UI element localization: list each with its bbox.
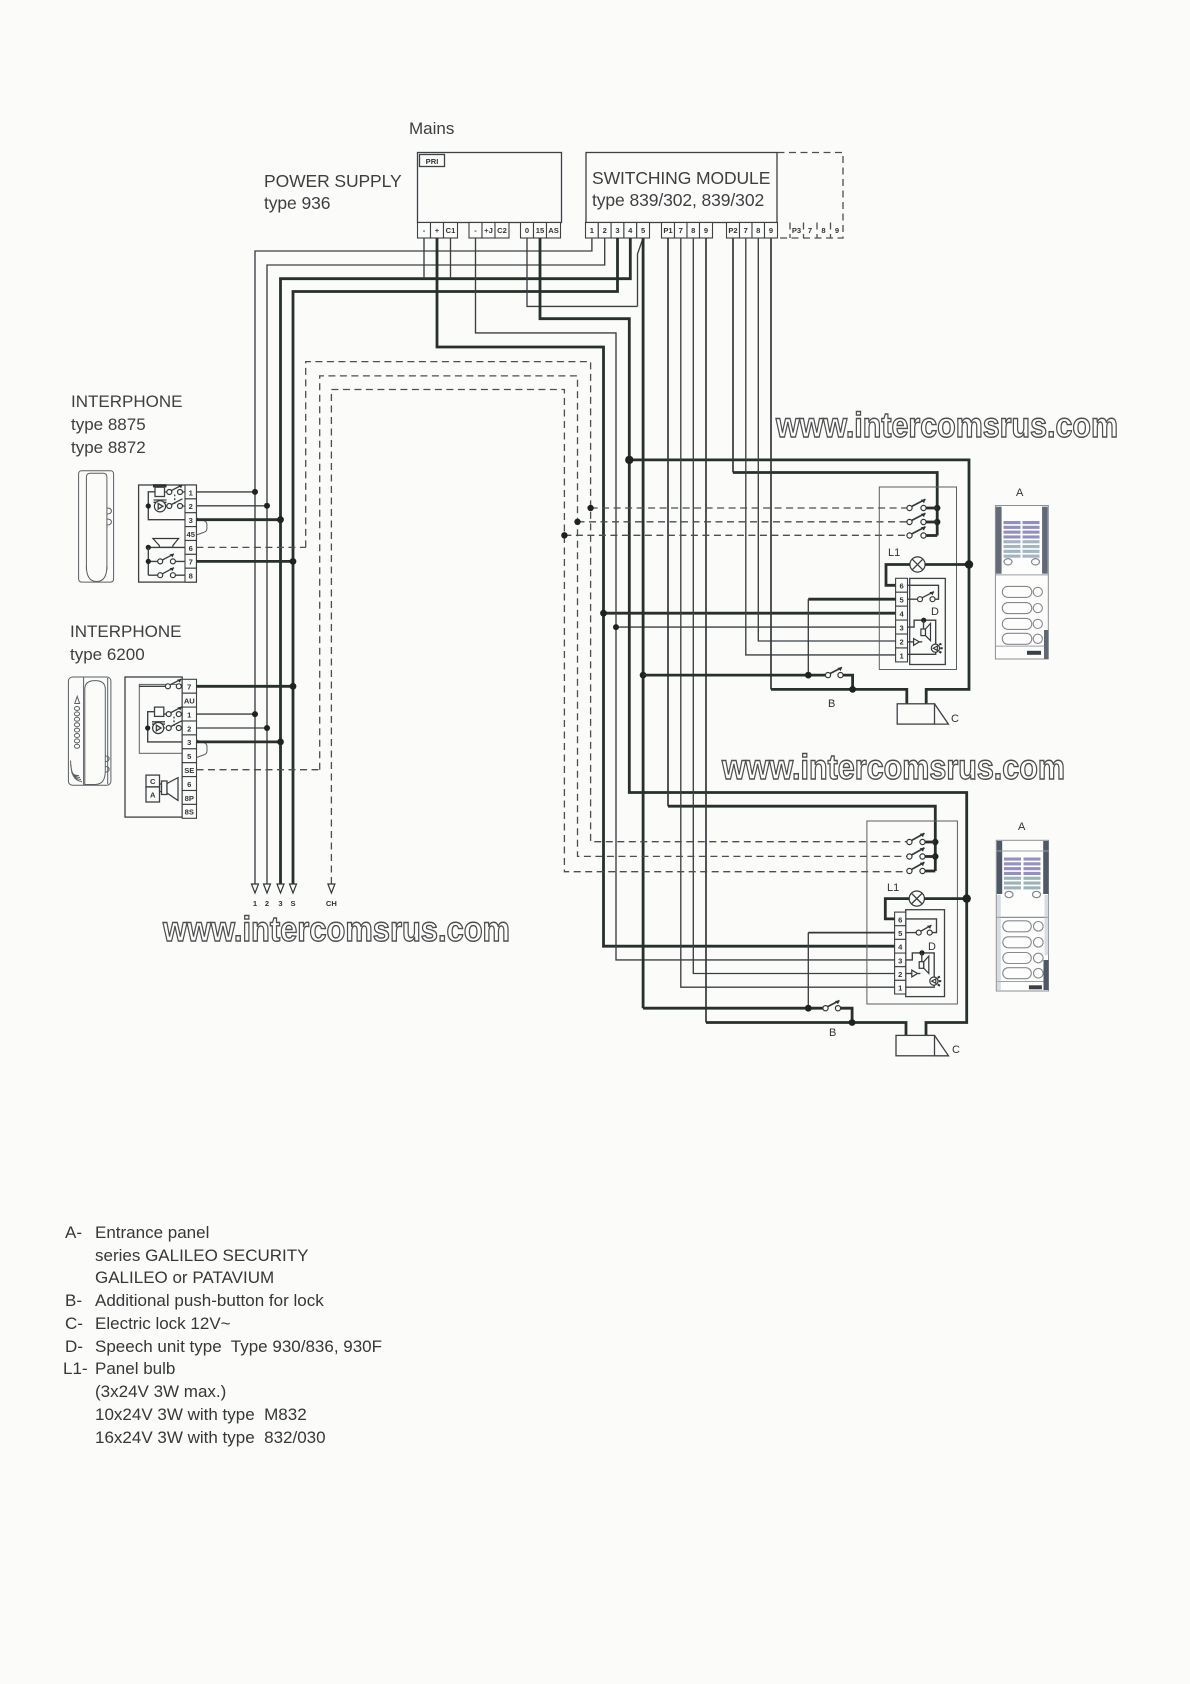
wire PS C1 stub to net 3 [450,238,452,279]
svg-text:7: 7 [189,558,193,567]
wire SM P1 to panel2 switches [667,238,669,806]
PS terminal C2 [495,223,509,239]
panel2 speech unit D box [906,910,945,997]
PS terminal +J [482,223,495,239]
svg-text:Entrance panel: Entrance panel [95,1223,209,1242]
PS terminal 0 [521,223,534,239]
8875 switch 4 [148,568,185,578]
interphone 6200 block box [125,677,182,817]
dashed net CH row3 [331,390,907,885]
wire PS -(2) down to panels T3 [476,238,895,960]
svg-text:2: 2 [265,899,269,908]
svg-text:15: 15 [536,226,545,235]
panel1 relay switch row2 [907,513,937,524]
SM terminal 1 [586,223,599,239]
panel1 relay switch row3 [907,527,937,538]
wire 8875 T3 to riser [196,518,280,521]
interphone 6200 title [70,622,181,664]
wire 6200 T1 to riser [197,713,256,715]
8875 mechanical link dotted [174,495,176,505]
wire 8875 T7 to riser [196,560,293,563]
panel2 button B [643,1001,855,1040]
svg-text:(3x24V 3W max.): (3x24V 3W max.) [95,1382,226,1401]
svg-text:7: 7 [808,226,812,235]
wire PS 0 to SM5 link [527,238,638,306]
riser arrow 3 [277,884,284,893]
8875 terminal 3 [185,513,196,527]
wire 6200 SE dashed [197,769,320,771]
6200 terminal 3 [182,735,196,749]
panel1 terminal 3 [896,620,908,634]
6200 C box [146,775,160,787]
svg-text:7: 7 [744,226,748,235]
6200 terminal 6 [182,777,196,791]
PS terminal C1 [444,223,458,239]
PS terminal 15 [534,223,547,239]
8875 buzzer [153,484,167,496]
panel2 relay switch row2 [907,848,935,859]
wire branch + to panel1 T4 [604,612,896,615]
wire PS - stub to net 3 [423,238,425,279]
panel1 terminal 6 [896,578,908,592]
panel1 switch T5-T6 [908,585,939,601]
wire SM 9a to panel2 lock [705,238,707,1023]
svg-text:D: D [931,606,939,618]
svg-text:3: 3 [278,899,282,908]
6200 terminal 8S [182,804,196,818]
svg-text:2: 2 [898,970,902,979]
8875 hook switch 2 [167,499,183,509]
8875 internal stubs [165,492,185,506]
svg-text:L1: L1 [887,882,899,894]
wire 8875 T2 to riser [196,505,267,507]
panel2 front plate drawing [996,840,1048,991]
svg-text:AU: AU [184,697,195,706]
junction P1 row1 [932,839,938,845]
svg-text:9: 9 [704,226,708,235]
svg-text:C1: C1 [446,226,456,235]
svg-text:www.intercomsrus.com: www.intercomsrus.com [721,748,1065,787]
6200 A box [146,787,160,802]
8875 speaker [153,539,179,548]
svg-text:2: 2 [603,226,607,235]
panel2 lamp L1 [885,891,971,919]
6200 mechanical link dotted [173,717,175,727]
wire PS 15 down to panel2 lamp loop [540,238,967,1035]
panel2 terminal 2 [895,967,906,981]
wire SM 8a to panel2 T2 [693,238,894,974]
svg-text:P3: P3 [792,226,801,235]
svg-text:B: B [828,698,835,710]
svg-text:B-: B- [65,1291,82,1310]
SM terminal 3 [611,223,624,239]
panel1 lock C [897,704,959,725]
wire SM 7a to panel2 T1 [681,238,895,987]
junction 8875 speaker [146,545,151,550]
wire SM P2 to panel1 switches [732,238,734,473]
panel2 module outline [867,821,958,1004]
wire SM5 down to panel2 button line [642,238,645,1008]
panel2 speech speaker [906,950,935,977]
svg-text:3: 3 [187,738,191,747]
svg-text:6: 6 [898,915,902,924]
svg-text:SWITCHING MODULE: SWITCHING MODULE [592,168,770,188]
svg-text:7: 7 [679,226,683,235]
8875 terminal 2 [185,499,196,513]
SM expansion dashed box P3 [778,153,844,239]
riser labels [253,899,337,908]
panel1 module outline [879,487,956,670]
6200 terminal 8P [182,791,196,805]
riser arrow S [290,884,297,893]
junction 8875 internal [146,503,151,508]
interphone 8875 handset drawing [79,471,114,582]
svg-text:3: 3 [898,956,902,965]
svg-text:+: + [435,226,440,235]
6200 loudspeaker [160,778,179,801]
svg-text:C: C [951,713,959,725]
svg-text:9: 9 [769,226,773,235]
panel1 terminal 5 [896,592,908,606]
svg-text:2: 2 [899,637,903,646]
svg-text:type 8875: type 8875 [71,415,146,434]
SM terminal 7b [740,223,753,239]
dashed net 6E row1 [306,362,907,842]
SM terminal P2 [727,223,740,239]
svg-text:2: 2 [189,502,193,511]
junction P2 row2 [934,519,940,525]
svg-text:Electric lock 12V~: Electric lock 12V~ [95,1314,231,1333]
svg-text:Mains: Mains [409,119,454,138]
svg-text:3: 3 [189,516,193,525]
SM terminal P1 [662,223,675,239]
svg-text:type 6200: type 6200 [70,645,145,664]
svg-text:8: 8 [691,226,695,235]
PS terminal - [418,223,431,239]
svg-text:8: 8 [756,226,760,235]
svg-text:16x24V 3W with type 832/030: 16x24V 3W with type 832/030 [95,1428,326,1447]
svg-text:7: 7 [187,683,191,692]
svg-text:P2: P2 [728,226,737,235]
interphone 8875 block box [139,485,197,582]
legend text [63,1223,382,1447]
svg-text:C: C [952,1044,960,1056]
panel2 relay switch row3 [907,862,935,873]
panel1 speech T2 triangle [908,639,923,646]
SM terminal 5 [637,223,650,239]
panel2 terminal 3 [895,953,906,967]
dashed net SE row2 [320,376,907,857]
panel1 terminal 2 [896,634,908,648]
SM terminal 4 [624,223,637,239]
panel1 terminal 4 [896,606,908,620]
6200 inner relay box [139,684,182,753]
power supply PS1 box type 936 [264,153,562,223]
svg-text:A: A [150,791,156,800]
svg-text:Speech unit type Type 930/836: Speech unit type Type 930/836, 930F [95,1337,382,1356]
6200 terminal 1 [182,707,196,721]
wire SM3 to riser S [293,238,618,884]
6200 terminal AU [182,693,196,707]
8875 switch 3 [146,554,185,564]
PS terminal AS [547,223,561,239]
svg-text:10x24V 3W with type M832: 10x24V 3W with type M832 [95,1405,307,1424]
junction dashed row2 [574,519,580,525]
wire 8875 T6 dashed [196,546,305,548]
svg-text:3: 3 [615,226,619,235]
svg-text:8S: 8S [185,808,194,817]
6200 buzzer [155,707,164,716]
8875 sounder [154,500,167,512]
panel1 relay switch row1 [907,499,937,510]
6200 terminal 5 [182,749,196,763]
svg-text:6: 6 [899,582,903,591]
svg-text:L1-: L1- [63,1359,88,1378]
6200 internal wiring [148,712,183,742]
panel1 speech speaker [908,618,936,645]
svg-text:CH: CH [326,899,337,908]
riser arrow 1 [252,884,259,893]
svg-text:www.intercomsrus.com: www.intercomsrus.com [162,910,510,949]
6200 terminal 7 [182,679,196,693]
wire SM1 to riser 1 [255,238,592,884]
PS terminal + [431,223,444,239]
svg-text:C: C [150,777,156,786]
panel2 terminal 1 [895,980,906,994]
svg-text:AS: AS [548,226,559,235]
svg-text:6: 6 [187,780,191,789]
6200 jumper 3-5 [197,740,208,758]
riser arrow 2 [264,884,271,893]
dashed branch row3 panel1 [564,534,907,536]
8875 internal wiring buzzer net [148,492,185,520]
PS terminal -(2) [469,223,482,239]
panel2 speech T2 triangle [906,970,921,977]
svg-text:6: 6 [189,544,193,553]
svg-text:C2: C2 [497,226,507,235]
SM terminal 8 [687,223,700,239]
svg-text:Additional push-button for loc: Additional push-button for lock [95,1291,324,1310]
SM terminal 9b [765,223,778,239]
wire 6200 T3 to riser [197,741,281,744]
svg-text:B: B [829,1027,836,1039]
CH arrow [328,884,335,893]
svg-text:SE: SE [184,766,194,775]
svg-text:D-: D- [65,1337,83,1356]
SM terminal 8b [752,223,765,239]
svg-text:S: S [290,899,295,908]
wire branch 15 to panel1 lamp loop [629,460,969,704]
SM terminal 2 [598,223,611,239]
8875 speaker net wire [148,546,185,548]
svg-text:type 936: type 936 [264,193,330,213]
wire SM5 diagonal link [638,238,644,306]
svg-text:A: A [1018,821,1026,833]
panel2 terminal 4 [895,939,906,953]
SM terminal 9 [700,223,713,239]
svg-text:GALILEO or PATAVIUM: GALILEO or PATAVIUM [95,1268,274,1287]
wire 8875 T1 to riser [196,491,255,493]
svg-text:2: 2 [187,724,191,733]
panel1 speech unit D box [910,578,946,664]
svg-text:8: 8 [821,226,825,235]
panel1 button B [643,667,856,710]
wire SM 9b to panel1 lock [770,238,772,689]
svg-text:L1: L1 [888,547,900,559]
switching module SM box type 839/302 [586,153,777,223]
svg-text:D: D [928,941,936,953]
panel1 lamp L1 [886,557,973,585]
svg-text:PRI: PRI [426,157,439,166]
6200 sounder [152,722,165,734]
svg-text:0: 0 [525,226,529,235]
svg-text:POWER SUPPLY: POWER SUPPLY [264,171,402,191]
svg-text:C-: C- [65,1314,83,1333]
wire PS + down to panels T4 [437,238,895,946]
svg-text:INTERPHONE: INTERPHONE [71,392,182,411]
panel2 lock C [896,1035,960,1056]
junction SM5 panel1 button line [640,672,647,679]
wire 6200 T2 to riser [197,727,268,729]
wire SM 8b to panel1 T2 [758,238,895,641]
wire SM 7b to panel1 T1 [746,238,896,655]
svg-text:A-: A- [65,1223,82,1242]
panel2 speech mic [906,977,942,988]
interphone 8875 title [71,392,182,457]
svg-text:INTERPHONE: INTERPHONE [70,622,181,641]
junction dashed row3 [561,532,567,538]
junction + panel1 T4 [600,610,607,617]
svg-text:A: A [1016,487,1024,499]
8875 terminal 45 [185,527,196,541]
svg-text:Panel bulb: Panel bulb [95,1359,175,1378]
svg-text:45: 45 [186,530,195,539]
8875 terminal 1 [185,485,196,499]
panel1 B feed riser [807,599,809,675]
svg-text:type 839/302, 839/302: type 839/302, 839/302 [592,190,764,210]
wire SM2 to riser 2 [267,238,605,884]
junction P1 row2 [932,853,938,859]
wire SM4 to riser 3 [281,238,631,884]
8875 terminal 8 [185,568,196,582]
junction 15 panel1 loop [625,456,633,464]
junction P2 row1 [934,505,940,511]
wire 6200 T7 to riser [197,685,294,688]
8875 jumper 3-45 [196,518,207,535]
panel1 front plate drawing [995,506,1048,660]
8875 hook switch 1 [167,485,183,495]
panel1 speech mic [908,644,943,655]
svg-text:www.intercomsrus.com: www.intercomsrus.com [775,406,1118,445]
8875 internal riser [147,547,149,575]
dashed branch row1 panel1 [591,507,907,509]
6200 switch 7 [139,679,181,689]
8875 terminal 7 [185,554,196,568]
svg-text:8P: 8P [185,794,194,803]
panel2 switch T5-T6 [906,919,937,935]
6200 hook switch 1 [166,707,182,717]
svg-text:P1: P1 [663,226,673,235]
dashed branch row2 panel1 [578,521,907,523]
wire branch -(2) to panel1 T3 [616,626,896,628]
junction -(2) panel1 T3 [613,624,619,630]
panel2 terminal 5 [895,926,906,940]
SM terminal 7 [675,223,688,239]
6200 terminal 2 [182,721,196,735]
svg-text:series GALILEO SECURITY: series GALILEO SECURITY [95,1246,309,1265]
panel2 terminal 6 [895,912,906,926]
8875 terminal 6 [185,540,196,554]
6200 terminal SE [182,763,196,777]
junction dashed row1 [587,505,593,511]
panel2 B feed riser [807,933,809,1009]
interphone 6200 wall unit drawing [68,677,111,785]
panel1 terminal 1 [896,648,908,662]
svg-text:8: 8 [189,572,193,581]
panel2 relay switch row1 [907,833,935,844]
6200 hook switch 2 [166,721,182,731]
svg-text:+J: +J [484,226,493,235]
svg-text:9: 9 [835,226,839,235]
svg-text:3: 3 [899,624,903,633]
svg-text:type 8872: type 8872 [71,438,146,457]
